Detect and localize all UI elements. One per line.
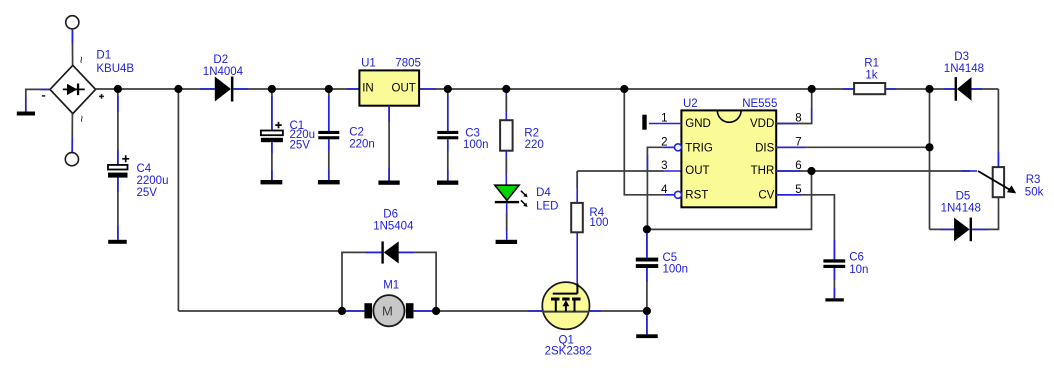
- wire : pin6 THR: [776, 170, 977, 172]
- diode D3: [955, 77, 972, 101]
- wire : D3/DIS/D5 vertical: [929, 89, 931, 229]
- regulator U1 7805: [359, 70, 419, 105]
- ground (D4): [496, 240, 517, 244]
- svg-text:D3: D3: [954, 51, 969, 63]
- wire : motor bottom line: [178, 310, 364, 312]
- label R3: [1025, 174, 1044, 198]
- svg-text:1N4004: 1N4004: [203, 66, 244, 78]
- capacitor C2: [318, 89, 339, 180]
- label D4: [536, 187, 558, 213]
- svg-text:25V: 25V: [290, 139, 311, 151]
- ground (U1): [378, 181, 399, 185]
- svg-text:D4: D4: [536, 187, 551, 199]
- TRIG bubble: [675, 144, 682, 151]
- svg-text:U1: U1: [361, 57, 376, 69]
- MOSFET Q1: [542, 282, 589, 329]
- label R2: [524, 127, 543, 151]
- svg-text:1N4148: 1N4148: [941, 203, 981, 215]
- svg-text:OUT: OUT: [685, 165, 709, 177]
- wire : pin8 VDD: [776, 89, 812, 124]
- svg-text:220: 220: [525, 139, 544, 151]
- svg-text:D1: D1: [96, 50, 111, 62]
- svg-text:220n: 220n: [349, 138, 375, 150]
- svg-text:~: ~: [75, 115, 89, 122]
- capacitor C6: [823, 259, 845, 298]
- wire : Q1 source to ground node: [590, 310, 647, 312]
- pin numbers left: [661, 113, 668, 196]
- wire : D3 to R3 top: [997, 89, 999, 167]
- wire U1 gnd pin: [388, 106, 390, 181]
- wire: [71, 29, 73, 65]
- label D1: [96, 50, 134, 75]
- svg-text:R2: R2: [524, 127, 539, 139]
- svg-text:RST: RST: [685, 190, 708, 202]
- label C3: [463, 127, 489, 151]
- label D2: [203, 54, 244, 78]
- svg-text:50k: 50k: [1025, 187, 1044, 199]
- svg-text:C3: C3: [465, 127, 480, 139]
- svg-text:KBU4B: KBU4B: [96, 63, 134, 75]
- label U1: [361, 57, 421, 69]
- label C4: [137, 163, 169, 199]
- svg-text:LED: LED: [536, 201, 558, 213]
- svg-text:C2: C2: [349, 126, 364, 138]
- svg-text:M: M: [382, 303, 393, 318]
- label D5: [941, 191, 981, 215]
- svg-text:R1: R1: [864, 57, 879, 69]
- svg-text:10n: 10n: [849, 264, 868, 276]
- capacitor C1 (electrolytic): [261, 89, 283, 180]
- wire : Q1 gate: [576, 232, 578, 283]
- resistor R4: [571, 171, 583, 232]
- svg-text:IN: IN: [362, 82, 374, 94]
- svg-text:M1: M1: [383, 280, 399, 292]
- capacitor C3: [437, 89, 458, 181]
- label D6: [373, 209, 414, 233]
- bridge rectifier D1: [42, 65, 104, 113]
- capacitor C5: [636, 229, 658, 334]
- svg-text:2200u: 2200u: [137, 175, 169, 187]
- IC U2 NE555: [681, 110, 776, 207]
- ground (C4): [108, 240, 127, 244]
- ground (C3): [437, 181, 458, 185]
- svg-text:1k: 1k: [865, 69, 877, 81]
- svg-text:VDD: VDD: [750, 118, 774, 130]
- svg-text:7805: 7805: [395, 58, 421, 70]
- svg-text:NE555: NE555: [742, 98, 777, 110]
- resistor R2: [500, 89, 512, 185]
- ground (C1): [261, 180, 283, 184]
- svg-text:3: 3: [661, 160, 667, 172]
- wire : motor branch left vertical: [177, 89, 179, 311]
- ground (pin1, sideways): [642, 115, 646, 130]
- AC terminal top: [66, 16, 79, 29]
- LED D4: [495, 185, 528, 240]
- svg-text:~: ~: [74, 56, 88, 63]
- wire : 555 OUT to R4: [577, 170, 681, 172]
- resistor R1: [854, 83, 885, 94]
- AC terminal bottom: [65, 153, 78, 166]
- label D3: [944, 51, 984, 75]
- wire : pin5 CV: [776, 195, 834, 259]
- svg-text:TRIG: TRIG: [685, 143, 713, 155]
- ground (C5/Q1): [636, 334, 658, 338]
- label R1: [864, 57, 879, 81]
- svg-text:THR: THR: [751, 165, 775, 177]
- svg-text:1N4148: 1N4148: [944, 63, 984, 75]
- svg-text:C5: C5: [663, 252, 678, 264]
- svg-text:100n: 100n: [663, 264, 689, 276]
- svg-text:OUT: OUT: [392, 82, 416, 94]
- label C6: [849, 252, 868, 276]
- wire: [414, 310, 543, 312]
- svg-text:CV: CV: [758, 190, 774, 202]
- wire: [71, 114, 73, 153]
- potentiometer R3: [978, 167, 1016, 197]
- junction node dots: [114, 85, 934, 315]
- svg-text:25V: 25V: [137, 187, 158, 199]
- wire : D5 loop: [930, 197, 999, 229]
- label Q1: [545, 334, 592, 357]
- wire : main +rail: [96, 88, 999, 90]
- ground: [17, 112, 35, 116]
- motor M1: [364, 295, 413, 326]
- diode D5: [954, 218, 972, 242]
- wire : blue tick R3 top: [997, 152, 999, 167]
- svg-text:100n: 100n: [463, 139, 489, 151]
- wire : pin7 DIS: [776, 146, 929, 148]
- svg-text:R3: R3: [1026, 174, 1041, 186]
- svg-text:100: 100: [589, 217, 608, 229]
- svg-text:D2: D2: [213, 54, 228, 66]
- svg-text:D6: D6: [383, 209, 398, 221]
- capacitor C4 (electrolytic): [108, 89, 129, 240]
- svg-text:U2: U2: [683, 98, 698, 110]
- label C1: [290, 120, 316, 152]
- ground (C2): [318, 180, 340, 184]
- label C5: [663, 252, 689, 276]
- svg-text:GND: GND: [685, 118, 711, 130]
- label C2: [349, 126, 375, 150]
- svg-text:D5: D5: [956, 191, 971, 203]
- wire: [26, 89, 50, 111]
- diode D6: [381, 241, 398, 263]
- wire : pin2 TRIG: [647, 147, 674, 229]
- label U2: [683, 98, 777, 110]
- diode D2: [215, 77, 234, 102]
- svg-text:C6: C6: [849, 252, 864, 264]
- RST bubble: [675, 191, 682, 198]
- pin numbers right: [795, 113, 801, 196]
- svg-text:1N5404: 1N5404: [373, 221, 414, 233]
- svg-text:DIS: DIS: [755, 143, 775, 155]
- wire : pin4 RST: [624, 89, 674, 195]
- label R4: [589, 207, 608, 229]
- ground (C6): [825, 298, 843, 301]
- wire : pin1 GND: [649, 123, 682, 125]
- wire : THR riser to TRIG node: [647, 171, 812, 229]
- svg-text:C4: C4: [137, 163, 152, 175]
- wire : D6 bypass loop: [342, 252, 436, 311]
- svg-text:2SK2382: 2SK2382: [545, 345, 592, 357]
